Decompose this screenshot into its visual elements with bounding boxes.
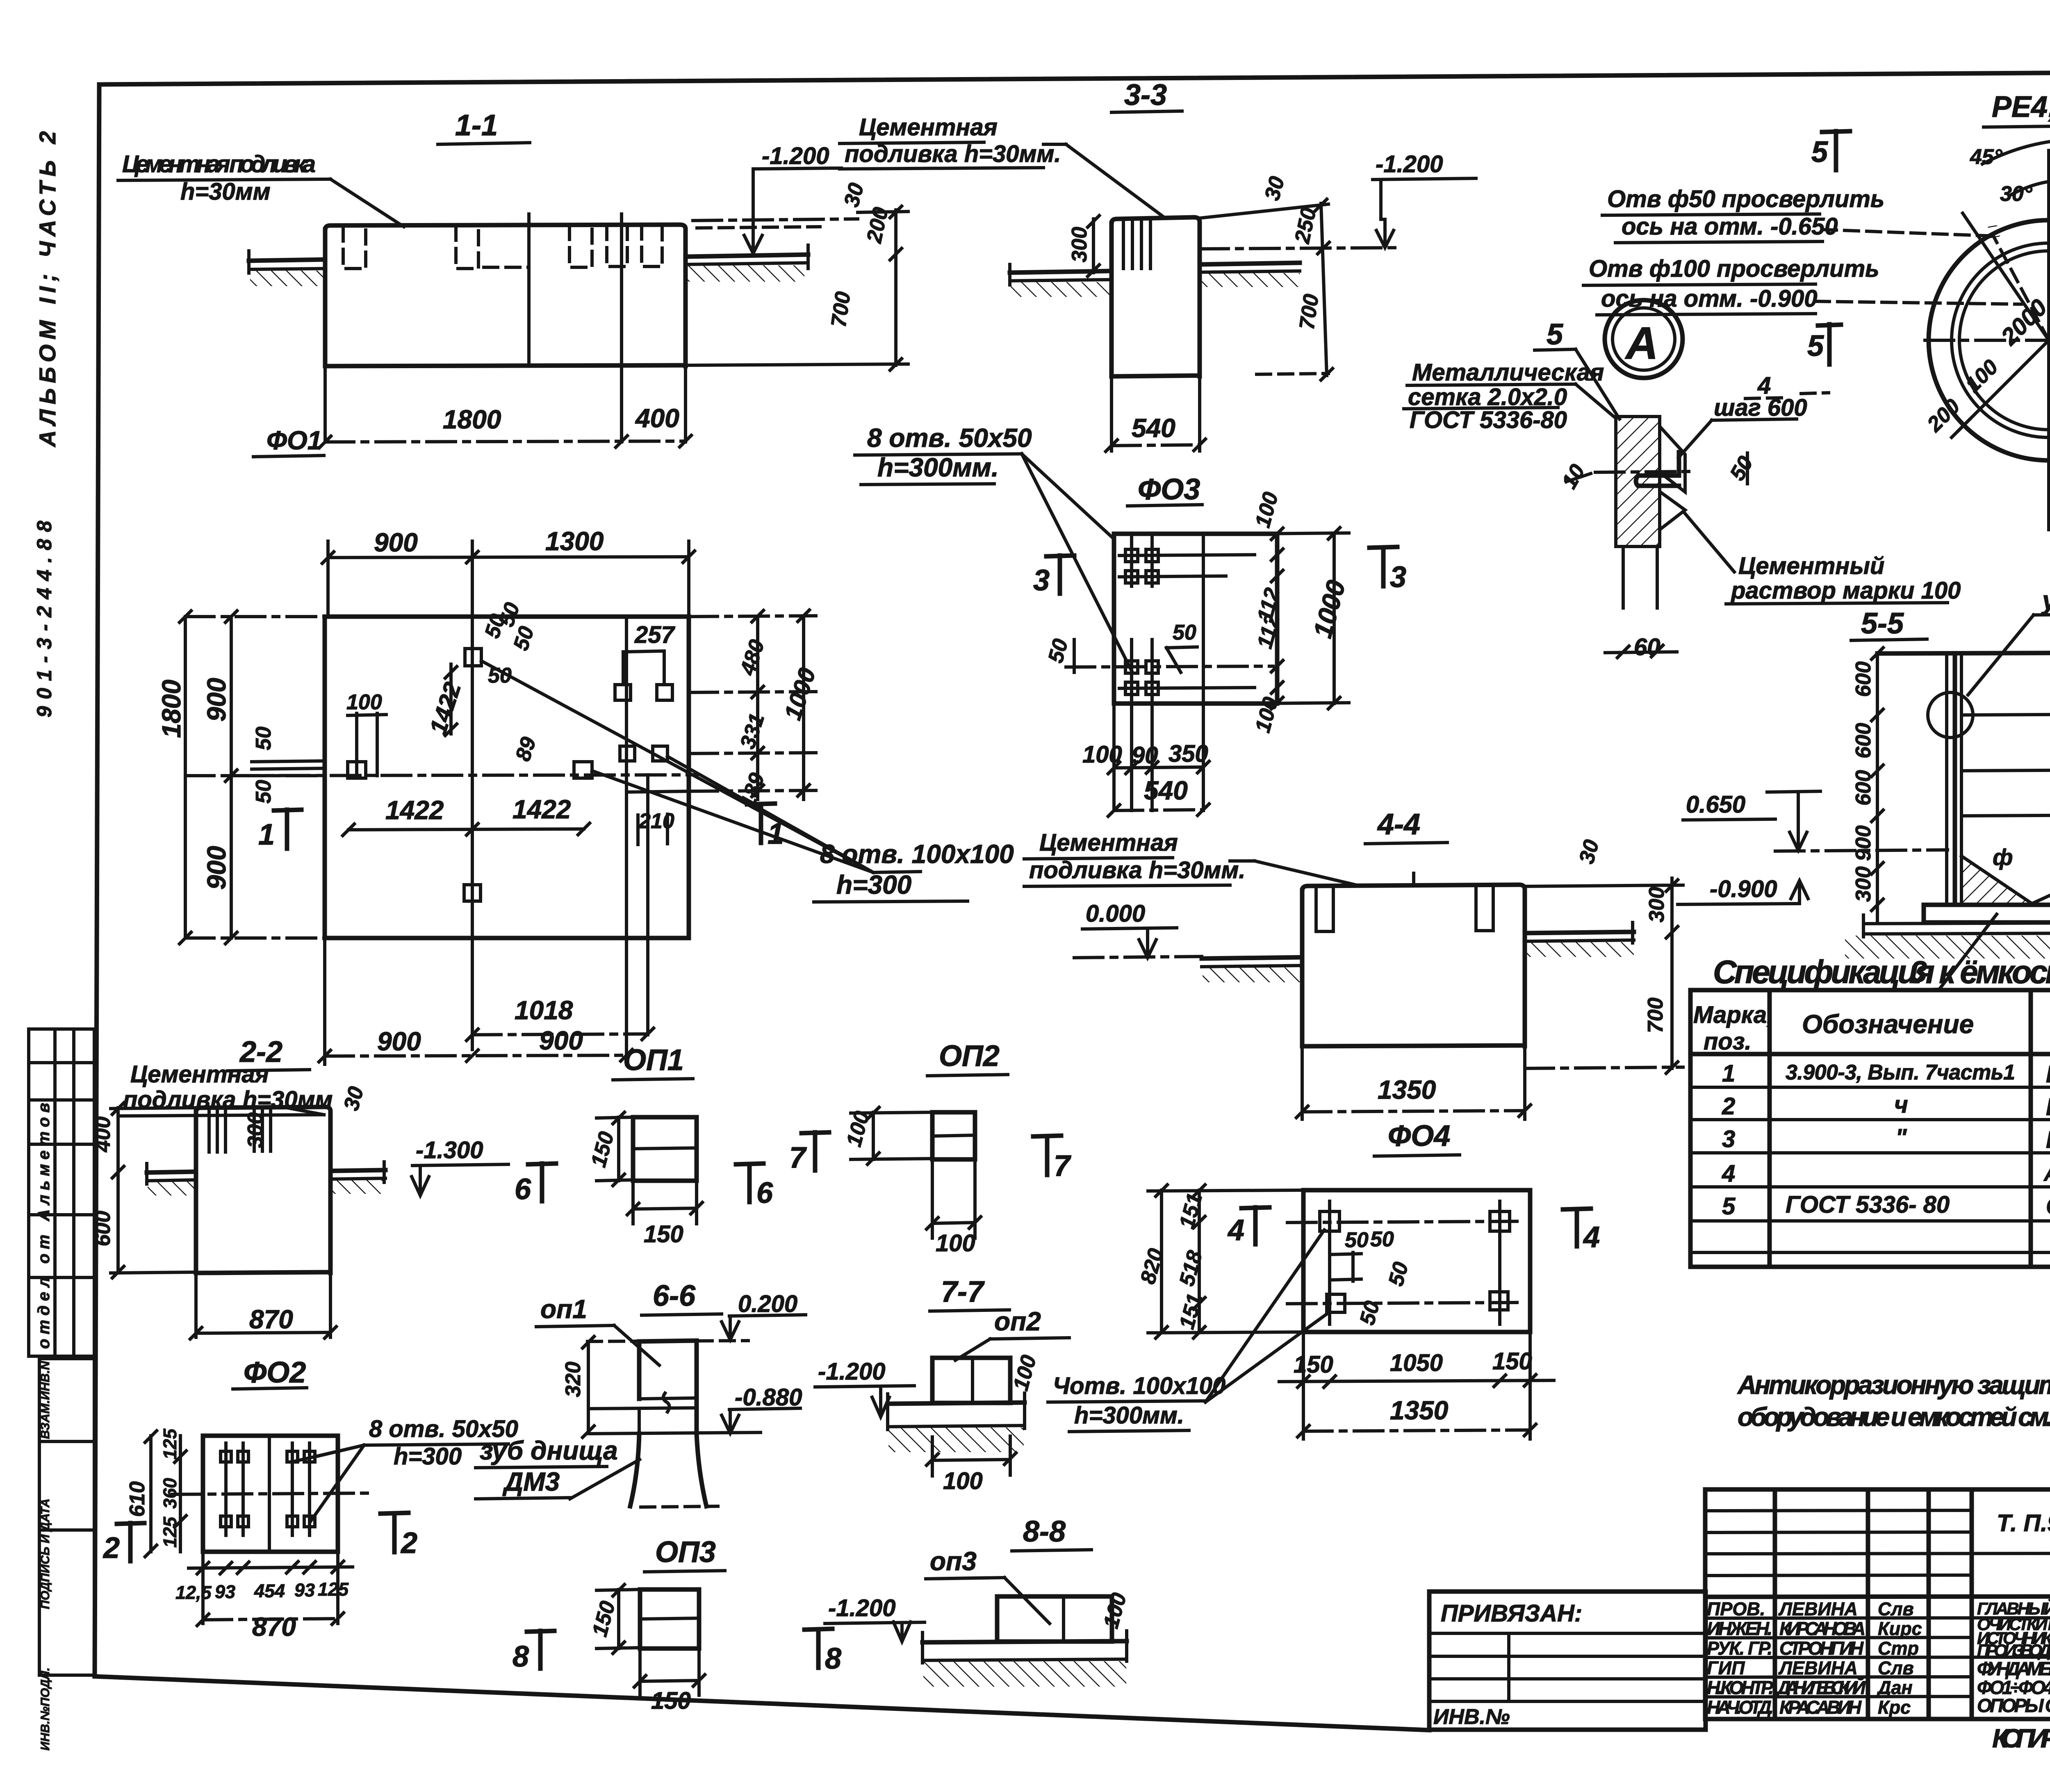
svg-text:6: 6: [515, 1173, 531, 1206]
FO2 title: [233, 1356, 307, 1389]
6-6 section title: [642, 1280, 722, 1315]
svg-text:7: 7: [789, 1141, 807, 1174]
svg-text:600: 600: [1852, 770, 1875, 806]
dim 1350 (4-4): [1295, 1046, 1532, 1119]
svg-text:12,5: 12,5: [175, 1582, 212, 1603]
svg-text:1050: 1050: [1390, 1350, 1443, 1376]
FO4 left dims: [1136, 1184, 1303, 1339]
svg-text:-0.880: -0.880: [735, 1384, 802, 1411]
svg-text:раствор марки 100: раствор марки 100: [1730, 577, 1961, 604]
svg-text:700: 700: [827, 290, 855, 329]
svg-text:узел А: узел А: [2041, 585, 2050, 615]
svg-text:3-3: 3-3: [1124, 79, 1167, 112]
section marker 5 mid: [1807, 324, 1841, 364]
OP3 square: [588, 1583, 706, 1714]
svg-text:ПРИВЯЗАН:: ПРИВЯЗАН:: [1441, 1600, 1582, 1627]
svg-text:h=300: h=300: [394, 1443, 462, 1470]
svg-text:7: 7: [1054, 1150, 1071, 1182]
FO2 bolts: [221, 1443, 315, 1535]
section 4-4 title: [1365, 808, 1447, 844]
svg-text:125: 125: [159, 1428, 180, 1460]
elevation -1.300: [412, 1137, 508, 1195]
FO1 plan outline: [325, 617, 689, 938]
svg-text:Н.КОНТР.: Н.КОНТР.: [1707, 1677, 1774, 1698]
svg-text:45°: 45°: [1970, 145, 2003, 169]
OP1 leader (6-6): [536, 1294, 659, 1365]
mesh label: [1404, 359, 1614, 433]
elevation -0.900: [1678, 876, 1808, 904]
svg-text:ЛЕВИНА: ЛЕВИНА: [1778, 1658, 1858, 1678]
svg-text:шаг 600: шаг 600: [1714, 394, 1807, 421]
FO3 bottom dims 100/90/350/540: [1082, 740, 1210, 817]
svg-text:300: 300: [1068, 227, 1091, 262]
svg-text:Стр: Стр: [1878, 1638, 1919, 1659]
svg-text:h=300мм.: h=300мм.: [877, 453, 999, 482]
FO3 title: [1127, 473, 1202, 506]
svg-text:оп3: оп3: [930, 1546, 977, 1576]
ground left 3-3: [1010, 264, 1112, 297]
svg-text:Цементная: Цементная: [1039, 829, 1178, 856]
svg-text:2: 2: [102, 1532, 120, 1564]
svg-text:КРАСАВИН: КРАСАВИН: [1779, 1697, 1862, 1718]
ground right 3-3: [1200, 263, 1300, 287]
markers 6 and 7: [515, 1132, 829, 1209]
svg-text:РУК. ГР.: РУК. ГР.: [1707, 1638, 1772, 1659]
foundation block 4-4: [1302, 873, 1525, 1046]
FO1 top dims 900/1300: [321, 526, 696, 617]
svg-text:300: 300: [244, 1112, 267, 1148]
svg-text:Обозначение: Обозначение: [1802, 1009, 1974, 1039]
svg-text:Цементная: Цементная: [130, 1061, 269, 1088]
FO1 inner dim lines: [252, 600, 676, 845]
svg-text:": ": [1895, 1124, 1907, 1151]
node A wall detail: [1557, 417, 1758, 660]
dim 320: [561, 1335, 595, 1439]
spec table grid: [1690, 990, 2050, 1267]
angle lines 45 and 30: [1963, 139, 2050, 340]
svg-text:1350: 1350: [1378, 1075, 1436, 1104]
svg-text:360: 360: [159, 1478, 180, 1509]
svg-text:1422: 1422: [385, 795, 444, 825]
ground left 4-4: [1202, 957, 1302, 982]
FO1 left dims 1800/900/900: [157, 610, 325, 945]
svg-text:1300: 1300: [545, 526, 604, 556]
ground right 4-4: [1525, 922, 1634, 957]
svg-text:8 отв. 100х100: 8 отв. 100х100: [820, 839, 1014, 869]
zub dnishcha label: [476, 1436, 640, 1499]
svg-text:0.650: 0.650: [1686, 791, 1745, 818]
svg-text:8: 8: [825, 1642, 841, 1675]
svg-text:900: 900: [1852, 825, 1875, 861]
svg-text:5-5: 5-5: [1861, 607, 1904, 640]
right dims 3-3 (30,250,700): [1200, 174, 1402, 381]
svg-text:400: 400: [91, 1116, 115, 1152]
svg-text:ч: ч: [1894, 1091, 1908, 1118]
svg-text:900: 900: [374, 528, 418, 557]
elevation 0.000 (4-4): [1074, 900, 1202, 958]
FO3 right dims: [1251, 490, 1351, 735]
svg-text:Дан: Дан: [1876, 1677, 1913, 1698]
svg-text:-1.200: -1.200: [818, 1358, 885, 1385]
dims right 4-4: [1525, 837, 1683, 1075]
OP2 leader 7-7: [955, 1307, 1069, 1360]
tank section 5-5: [1877, 653, 2050, 905]
FO4 plan: [1303, 1190, 1530, 1332]
7-7 title: [930, 1275, 1009, 1311]
svg-text:h=300мм.: h=300мм.: [1074, 1402, 1184, 1429]
svg-text:ФО3: ФО3: [1138, 473, 1200, 506]
OP3 leader 8-8: [926, 1546, 1050, 1624]
dim 300 embed (3-3): [1068, 214, 1100, 278]
FO2 section marker 2: [102, 1513, 417, 1564]
svg-text:93: 93: [294, 1580, 315, 1601]
svg-text:А: А: [1624, 318, 1658, 369]
svg-text:-1.200: -1.200: [828, 1595, 895, 1621]
svg-text:600: 600: [1852, 723, 1875, 758]
FO4 markers 4: [1227, 1207, 1600, 1254]
svg-text:150: 150: [1294, 1351, 1333, 1378]
svg-text:4: 4: [1227, 1214, 1244, 1247]
FO4 bottom dims: [1279, 1332, 1554, 1439]
OP3 title: [645, 1536, 725, 1572]
OP1 square: [587, 1111, 704, 1248]
svg-text:900: 900: [202, 678, 231, 722]
svg-text:ГОСТ 5336-80: ГОСТ 5336-80: [1410, 407, 1567, 433]
svg-text:600: 600: [1852, 661, 1875, 697]
section 2-2 title: [228, 1036, 310, 1071]
svg-text:-1.300: -1.300: [416, 1137, 483, 1164]
svg-text:5: 5: [1547, 318, 1563, 351]
left dim chain 5-5: [1852, 647, 1884, 922]
svg-text:5: 5: [1811, 136, 1828, 168]
base slab 5-5: [1845, 905, 2050, 959]
svg-text:150: 150: [651, 1687, 691, 1714]
uzel A label: [1968, 585, 2050, 695]
svg-text:8: 8: [512, 1640, 529, 1673]
svg-text:Плита КЦД 20: Плита КЦД 20: [2046, 1127, 2050, 1153]
svg-text:ОПОРЫ ОП1÷ОП3.: ОПОРЫ ОП1÷ОП3.: [1977, 1695, 2050, 1716]
FO1 center dash lines: [230, 558, 697, 1050]
cement grout leader 1-1: [118, 151, 404, 227]
svg-text:Спецификация к ёмкостям РЕ4;: Спецификация к ёмкостям РЕ4; РЕ5.: [1713, 954, 2050, 990]
markers 8: [512, 1629, 841, 1675]
svg-text:ПРОИЗВОДИТЕЛЬНОСТЬЮ 125ТЫС.М3/: ПРОИЗВОДИТЕЛЬНОСТЬЮ 125ТЫС.М3/СУТ.: [1977, 1641, 2050, 1660]
dim 870 (2-2): [189, 1272, 337, 1340]
svg-text:Слв: Слв: [1878, 1598, 1914, 1619]
elevation -1.200 right (3-3): [1373, 151, 1476, 248]
svg-text:350: 350: [1168, 740, 1208, 767]
svg-text:-1.200: -1.200: [762, 143, 829, 169]
svg-text:ВЗАМ.ИНВ.N: ВЗАМ.ИНВ.N: [39, 1361, 52, 1439]
svg-text:3.900-3, Вып. 7часть1: 3.900-3, Вып. 7часть1: [1786, 1061, 2015, 1084]
svg-text:3: 3: [1390, 561, 1406, 594]
svg-text:1800: 1800: [157, 680, 186, 738]
right dims 1-1 (30,200,700): [686, 180, 908, 371]
svg-text:454: 454: [254, 1580, 285, 1601]
svg-text:оборудование и емкостей см. ра: оборудование и емкостей см. раздел А3.: [1738, 1402, 2050, 1432]
svg-text:1800: 1800: [443, 405, 501, 434]
svg-text:ФУНДАМЕНТЫ ПОД ОБОРУДОВАНИЕ: ФУНДАМЕНТЫ ПОД ОБОРУДОВАНИЕ: [1977, 1658, 2050, 1679]
svg-text:Слв: Слв: [1878, 1658, 1914, 1678]
elevation -1.200 (1-1): [693, 143, 858, 253]
FO2 bottom dims: [175, 1552, 353, 1642]
svg-text:4-4: 4-4: [1377, 808, 1420, 841]
svg-text:отдел от Альметов: отдел от Альметов: [35, 1103, 53, 1349]
svg-text:50: 50: [1345, 1228, 1369, 1252]
svg-text:0.000: 0.000: [1086, 900, 1145, 927]
svg-text:ОП3: ОП3: [655, 1536, 716, 1569]
svg-text:1-1: 1-1: [455, 109, 498, 142]
svg-text:540: 540: [1132, 413, 1175, 443]
svg-text:6-6: 6-6: [653, 1280, 696, 1312]
svg-text:870: 870: [249, 1305, 293, 1334]
svg-text:700: 700: [1295, 293, 1323, 331]
svg-text:Чотв. 100х100: Чотв. 100х100: [1053, 1373, 1225, 1399]
elevation -1.200 (7-7): [815, 1358, 914, 1417]
cement grout leader 2-2: [119, 1061, 333, 1116]
mesh step label 4: [1679, 372, 1829, 458]
spec table header text: [1693, 995, 2050, 1058]
svg-text:700: 700: [1644, 997, 1667, 1033]
6-6 column: [588, 1341, 761, 1507]
svg-text:3: 3: [1033, 564, 1050, 597]
svg-text:540: 540: [1144, 776, 1188, 805]
svg-text:ПОДПИСЬ И ДАТА: ПОДПИСЬ И ДАТА: [39, 1498, 52, 1609]
svg-text:Отв ф50 просверлить: Отв ф50 просверлить: [1607, 186, 1884, 212]
svg-text:1350: 1350: [1390, 1396, 1448, 1425]
svg-text:Металлическая: Металлическая: [1412, 359, 1604, 386]
svg-text:50: 50: [1370, 1227, 1394, 1251]
foundation block 2-2: [196, 1107, 330, 1273]
anchor slots 1-1: [343, 225, 662, 269]
cement grout leader 3-3: [840, 114, 1165, 218]
svg-text:h=300: h=300: [836, 870, 911, 899]
hole drilling notes: [1583, 186, 2021, 315]
FO3 section marker 3: [1033, 547, 1406, 597]
svg-text:870: 870: [252, 1612, 296, 1642]
svg-text:2: 2: [1722, 1093, 1735, 1120]
svg-text:ось на отм. -0.650: ось на отм. -0.650: [1622, 213, 1838, 240]
svg-text:300: 300: [1645, 887, 1669, 922]
ground left 1-1: [249, 251, 325, 286]
foundation block 1-1: [325, 214, 686, 442]
8-8 block: [922, 1590, 1131, 1687]
svg-text:610: 610: [125, 1481, 149, 1517]
svg-text:поз.: поз.: [1704, 1028, 1752, 1055]
svg-text:Марка,: Марка,: [1693, 1002, 1773, 1028]
FO4 title: [1374, 1120, 1460, 1156]
svg-text:257: 257: [634, 622, 676, 648]
svg-text:900: 900: [377, 1027, 421, 1056]
svg-text:30°: 30°: [2000, 182, 2033, 206]
svg-text:-0.900: -0.900: [1710, 876, 1777, 902]
OP2 square: [842, 1106, 1071, 1257]
FO1 bottom dims 1018/900/900: [318, 775, 655, 1064]
FO2 8 holes label: [294, 1416, 518, 1521]
svg-text:ГИП: ГИП: [1707, 1658, 1745, 1678]
svg-text:КИРСАНОВА: КИРСАНОВА: [1779, 1618, 1865, 1639]
node A detail callout circle: [1605, 300, 1683, 378]
FO4 50/50 labels: [1345, 1227, 1413, 1327]
svg-text:0.200: 0.200: [738, 1291, 797, 1317]
FO1 right dims 480/1000/331/189: [689, 609, 821, 811]
svg-text:125: 125: [318, 1579, 349, 1600]
anticorrosion note: [1737, 1370, 2050, 1432]
FO4 bolts: [1287, 1201, 1517, 1324]
svg-text:НАЧ.ОТД.: НАЧ.ОТД.: [1707, 1697, 1774, 1718]
svg-text:оп1: оп1: [540, 1294, 587, 1324]
svg-text:Отв ф100 просверлить: Отв ф100 просверлить: [1589, 255, 1879, 282]
svg-text:Крс: Крс: [1878, 1697, 1911, 1718]
svg-text:подливка h=30мм.: подливка h=30мм.: [1029, 857, 1245, 883]
svg-text:Цементный: Цементный: [1738, 553, 1884, 579]
svg-text:РЕ4;РЕ5: РЕ4;РЕ5: [1992, 91, 2050, 123]
svg-text:7-7: 7-7: [941, 1275, 985, 1308]
dim 1800/400 (1-1): [318, 403, 692, 449]
spec table rows: [1722, 1059, 2050, 1220]
svg-text:50: 50: [1173, 621, 1196, 644]
svg-text:1: 1: [1722, 1060, 1735, 1087]
svg-text:8 отв. 50х50: 8 отв. 50х50: [867, 423, 1032, 453]
svg-text:900: 900: [202, 846, 231, 890]
svg-text:ЛЕВИНА: ЛЕВИНА: [1778, 1598, 1858, 1619]
section 5-5 title: [1851, 607, 1927, 640]
svg-text:ОП1: ОП1: [623, 1044, 684, 1077]
dim 540 (3-3): [1105, 413, 1207, 453]
svg-text:Кирс: Кирс: [1878, 1618, 1922, 1639]
dims 2-2: [91, 1084, 369, 1279]
FO1 bolts: [348, 649, 672, 901]
svg-text:93: 93: [215, 1581, 235, 1602]
svg-text:1: 1: [768, 817, 784, 850]
svg-text:150: 150: [1492, 1348, 1532, 1375]
svg-text:ФО2: ФО2: [244, 1356, 306, 1389]
svg-text:3: 3: [1722, 1126, 1735, 1152]
foundation block 3-3: [1112, 217, 1200, 451]
footer texts: [1992, 1720, 2050, 1753]
svg-text:1422: 1422: [512, 795, 571, 824]
sand fill 5-5: [1961, 844, 2050, 905]
svg-text:60: 60: [1634, 634, 1660, 660]
FO3 plan outline: [1114, 534, 1277, 811]
section 3-3 title: [1112, 79, 1182, 112]
FO4 4 holes label: [1048, 1230, 1330, 1432]
svg-text:2: 2: [400, 1527, 417, 1560]
FO2 plan: [172, 1436, 369, 1552]
svg-text:125: 125: [159, 1516, 180, 1548]
svg-text:ИНВ.№ПОДЛ.: ИНВ.№ПОДЛ.: [39, 1667, 52, 1751]
svg-text:зуб днища: зуб днища: [480, 1436, 618, 1465]
svg-text:1: 1: [258, 818, 275, 851]
svg-text:Кольцо КЦ 20-9: Кольцо КЦ 20-9: [2046, 1094, 2050, 1120]
svg-text:50: 50: [252, 780, 276, 804]
FO3 bolts: [1125, 549, 1158, 694]
elevation -1.200 (8-8): [825, 1595, 925, 1642]
svg-text:5: 5: [1807, 330, 1824, 362]
svg-text:6: 6: [756, 1177, 773, 1209]
svg-text:оп2: оп2: [994, 1307, 1041, 1336]
FO3 bolt axis lines: [1044, 537, 1273, 811]
OP1 title: [613, 1044, 693, 1080]
svg-text:ф: ф: [1993, 844, 2013, 870]
svg-text:8-8: 8-8: [1023, 1515, 1066, 1548]
7-7 block: [888, 1353, 1041, 1494]
svg-text:Цементная: Цементная: [859, 114, 998, 141]
svg-text:100: 100: [346, 690, 382, 714]
title block texts: [1707, 1508, 2050, 1719]
svg-text:h=30мм: h=30мм: [180, 178, 271, 205]
svg-text:ИНЖЕН.: ИНЖЕН.: [1707, 1618, 1772, 1639]
svg-text:1018: 1018: [515, 995, 573, 1025]
cement mortar label: [1683, 512, 1961, 604]
pos 5 label (mesh): [1535, 318, 1619, 419]
svg-text:Антикорразионную защиту фундам: Антикорразионную защиту фундаментов под: [1737, 1370, 2050, 1400]
section 1-1 title: [438, 109, 530, 144]
title PE4;PE5: [1984, 91, 2050, 127]
left margin strips: [29, 131, 94, 1751]
svg-text:150: 150: [644, 1221, 683, 1248]
svg-text:ДМ3: ДМ3: [502, 1467, 560, 1496]
FO2 left dims: [125, 1428, 187, 1558]
svg-text:ФО1: ФО1: [266, 426, 322, 455]
svg-text:СТРОНГИН: СТРОНГИН: [1779, 1638, 1864, 1659]
svg-text:ИНВ.№: ИНВ.№: [1433, 1705, 1510, 1729]
svg-text:-1.200: -1.200: [1376, 151, 1443, 178]
8 holes 50x50 label: [855, 423, 1132, 672]
svg-text:900: 900: [539, 1026, 583, 1055]
8-8 title: [1012, 1515, 1091, 1551]
svg-text:300: 300: [1852, 866, 1875, 902]
svg-text:4: 4: [1722, 1160, 1735, 1187]
section marker 5 top: [1811, 131, 1850, 170]
FO1 title: [253, 426, 324, 457]
svg-text:КОПИРОВАЛ: ЛОГИНОВА: КОПИРОВАЛ: ЛОГИНОВА: [1992, 1724, 2050, 1753]
svg-text:50: 50: [252, 726, 276, 750]
svg-text:ДАНИЛЕВСКИЙ: ДАНИЛЕВСКИЙ: [1776, 1677, 1866, 1698]
svg-text:Цементная подливка: Цементная подливка: [122, 151, 316, 178]
svg-text:4: 4: [1583, 1221, 1600, 1254]
svg-text:ФО4: ФО4: [1388, 1120, 1450, 1152]
elevation 0.200: [722, 1291, 806, 1340]
OP2 title: [927, 1040, 1008, 1076]
svg-text:Т. П.901-3-244.88: Т. П.901-3-244.88: [1997, 1510, 2050, 1537]
pos 3 leader: [1902, 914, 1997, 990]
svg-text:ГОСТ 5336- 80: ГОСТ 5336- 80: [1786, 1191, 1950, 1218]
svg-text:5: 5: [1722, 1193, 1736, 1220]
FO1 8 holes leader: [481, 661, 1014, 902]
svg-text:600: 600: [91, 1211, 115, 1246]
diameter 2000 line: [1922, 207, 2050, 437]
ground right 1-1: [686, 245, 808, 282]
svg-text:400: 400: [635, 403, 679, 433]
tank plan circles: [1925, 150, 2050, 530]
svg-text:100: 100: [943, 1468, 983, 1494]
svg-text:Сетка 20 -2.0: Сетка 20 -2.0: [2046, 1193, 2050, 1220]
svg-text:ОП2: ОП2: [939, 1040, 1000, 1072]
spec table title: [1713, 954, 2050, 990]
cement grout leader 4-4: [1024, 829, 1355, 886]
FO1 section marker 1: [258, 804, 784, 851]
elevation 0.650: [1683, 791, 1947, 851]
svg-text:100: 100: [936, 1230, 975, 1257]
svg-text:А-I-6-ГОСТ5781-82,L=110: А-I-6-ГОСТ5781-82,L=110: [2043, 1162, 2050, 1186]
svg-text:320: 320: [561, 1362, 585, 1397]
ground 2-2: [147, 1162, 385, 1195]
uzel A circle on wall: [1928, 692, 1973, 738]
svg-text:ПРОВ.: ПРОВ.: [1707, 1598, 1765, 1619]
svg-text:Кольцо КЦ 20-6: Кольцо КЦ 20-6: [2046, 1061, 2050, 1088]
